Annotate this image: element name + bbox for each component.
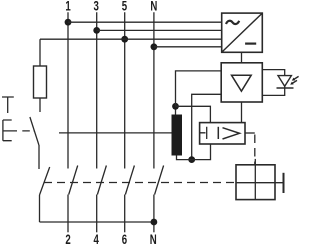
wire amplifier to LED anode (262, 70, 284, 76)
switch main pole N blade (155, 166, 164, 195)
trip mechanism cross horizontal (236, 182, 284, 184)
wire bus N to rectifier (154, 46, 222, 48)
rectifier diagonal (222, 13, 263, 52)
svg-text:3: 3 (94, 0, 100, 14)
trip mechanism M1 box (236, 165, 275, 200)
node L1 tap (65, 19, 72, 26)
wire CT top to node A (175, 106, 177, 114)
wire trip relay output pin (245, 132, 255, 134)
trip relay I bar (217, 127, 219, 139)
rectifier DC symbol minus (245, 42, 256, 44)
svg-text:4: 4 (94, 233, 100, 246)
wire test branch drop (39, 39, 41, 66)
wire LED cathode return (262, 86, 284, 95)
wire CT bottom to trip relay bottom (177, 144, 211, 160)
manual actuator symbol E (3, 120, 17, 141)
amplifier triangle (232, 75, 252, 91)
switch test contact blade (30, 117, 39, 145)
switch main pole L2 blade (97, 166, 106, 195)
svg-text:1: 1 (65, 0, 71, 14)
current transformer primary line (59, 132, 172, 134)
mechanical link trip relay to mechanism (dashed) (254, 135, 256, 165)
wire node A to trip relay top (176, 106, 211, 122)
wire pole L3 lower (124, 195, 126, 233)
wire pole N lower (153, 195, 155, 233)
wire bus L1 to rectifier (68, 21, 222, 23)
wire node A to amplifier input (176, 71, 222, 106)
pushbutton symbol T (2, 97, 14, 113)
trip mechanism cross vertical (254, 159, 256, 200)
rectifier AC symbol ~ (226, 21, 239, 24)
wire rectifier output (241, 52, 243, 63)
node A junction (172, 103, 179, 110)
node N tap (151, 43, 158, 50)
current transformer secondary winding (black bar) W1 (172, 115, 183, 156)
svg-text:5: 5 (122, 0, 128, 14)
wire pole L2 lower (96, 195, 98, 233)
wire test branch to bottom bus (39, 195, 41, 222)
wire pole L3 vertical (124, 12, 126, 168)
wire bus L3 to rectifier and test resistor (40, 38, 222, 40)
trip relay U3 box (I>) (200, 123, 245, 144)
svg-text:N: N (150, 0, 157, 14)
LED D1 triangle (278, 76, 291, 87)
svg-text:2: 2 (65, 233, 71, 246)
switch main pole L3 blade (125, 166, 134, 195)
handle terminal bar (283, 173, 285, 193)
wire bottom bus (40, 221, 154, 223)
resistor R1 (test resistor) (34, 66, 47, 98)
wire pole L2 vertical (96, 12, 98, 168)
wire bus L2 to rectifier (97, 29, 222, 31)
LED arrow 2 (292, 80, 297, 83)
switch test-branch pole blade (40, 167, 50, 195)
wire pole L1 vertical (67, 12, 69, 168)
switch main pole L1 blade (69, 166, 78, 195)
wire amplifier pin to bottom node (192, 94, 222, 159)
wire pole L1 lower (67, 195, 69, 233)
node L2 tap (93, 27, 100, 34)
wire pole N vertical (153, 12, 155, 168)
LED arrow 1 (294, 76, 299, 79)
node L3 tap (121, 36, 128, 43)
wire test contact to pole contact (38, 145, 40, 169)
LED cathode bar (277, 87, 294, 89)
node N bottom junction (151, 219, 158, 226)
trip relay greater-than (223, 128, 240, 139)
mechanical link actuator to test contact (dashed) (22, 130, 34, 132)
wire amplifier to trip relay (241, 102, 243, 123)
mechanical coupling bar all poles (dashed) (44, 182, 236, 184)
amplifier U2 box (221, 63, 262, 102)
svg-text:6: 6 (122, 233, 128, 246)
svg-text:N: N (150, 233, 157, 246)
wire resistor to test contact (39, 98, 41, 112)
trip relay contact tick (200, 127, 207, 139)
rectifier U1 box (222, 13, 263, 52)
node B junction (188, 156, 195, 163)
